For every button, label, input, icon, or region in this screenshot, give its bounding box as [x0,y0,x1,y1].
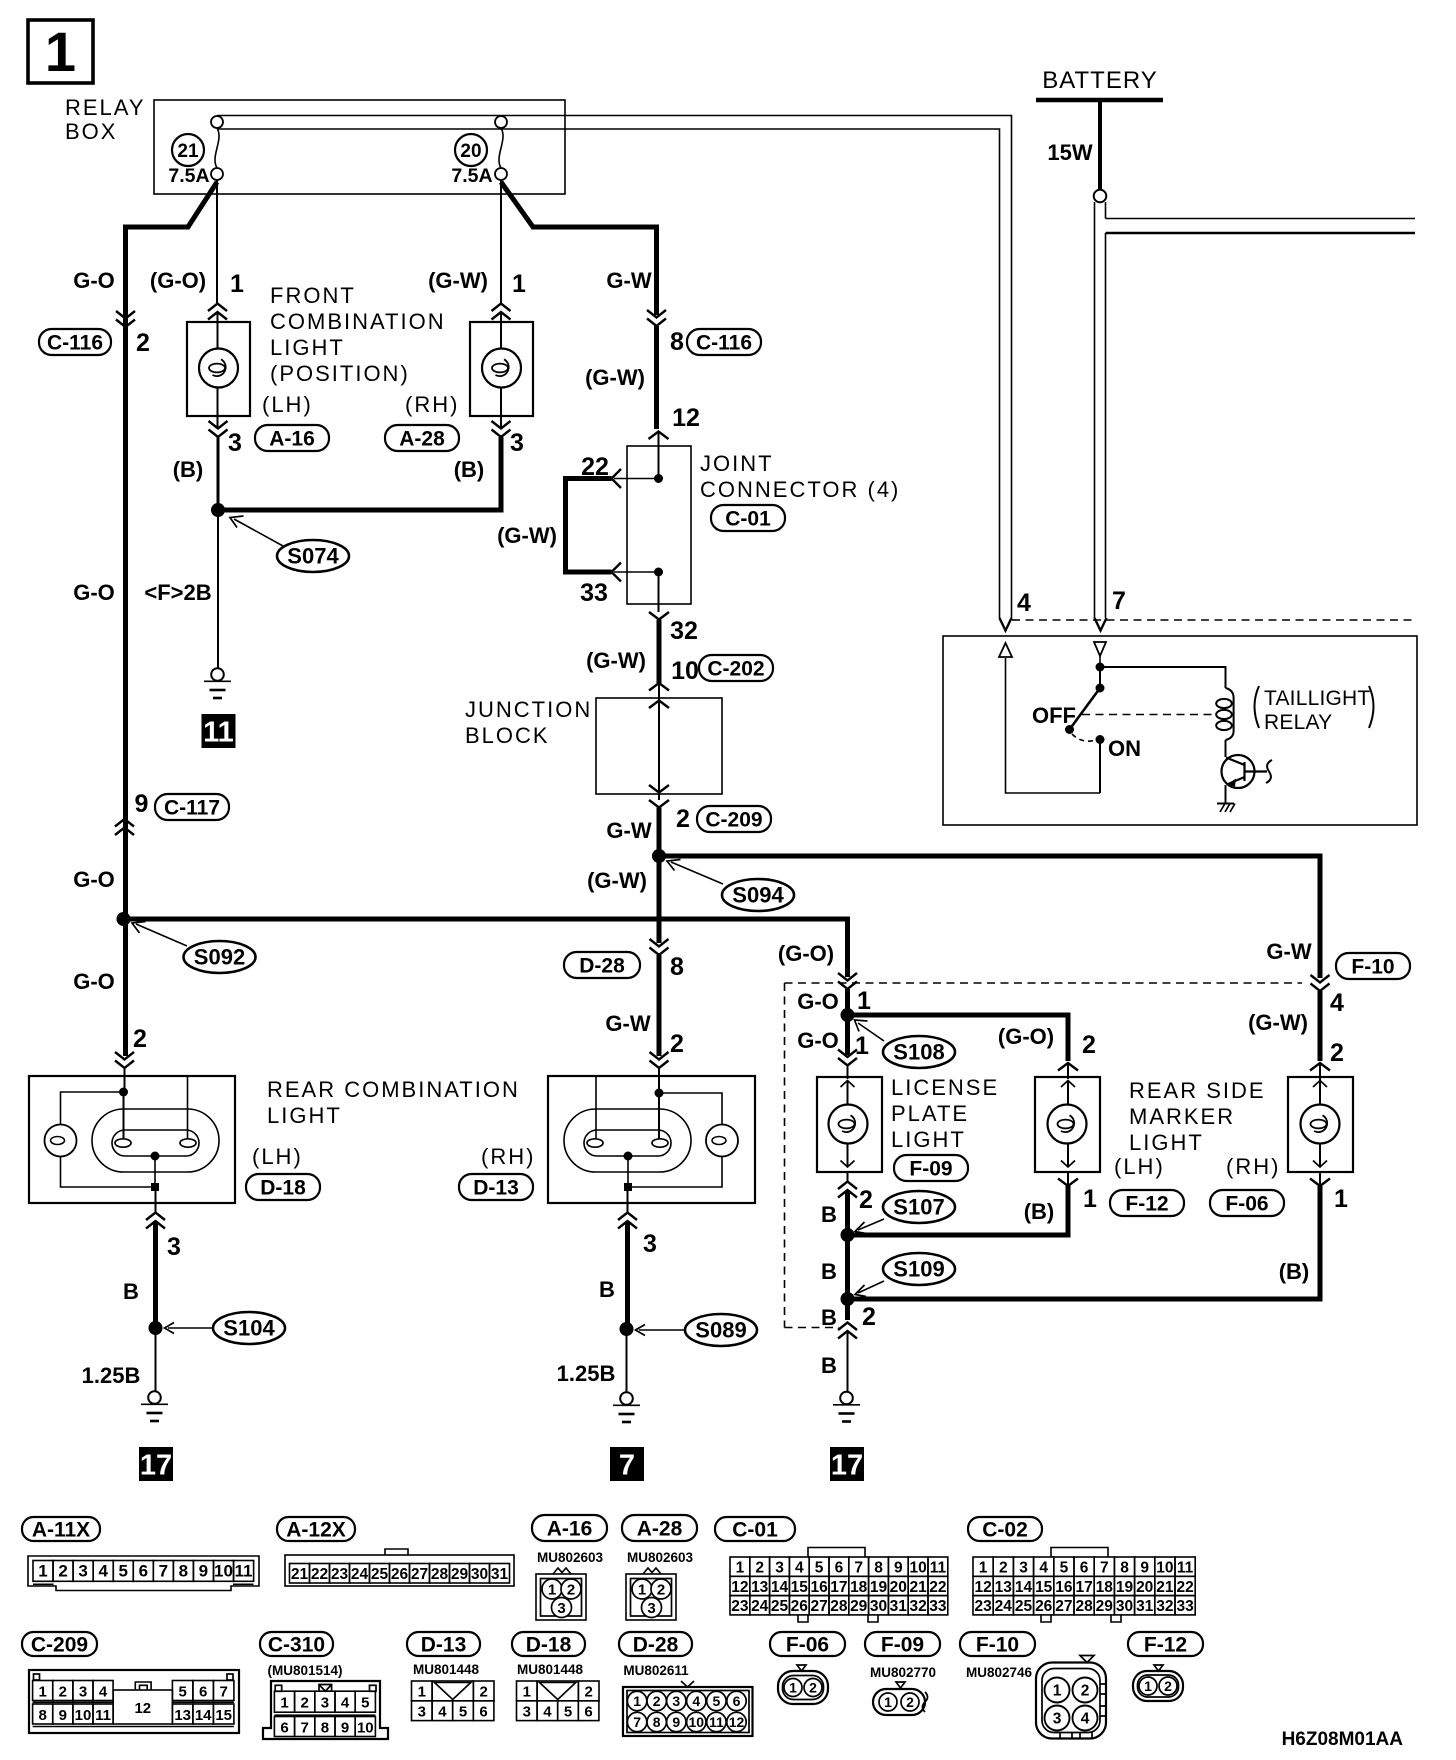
svg-text:30: 30 [870,1598,887,1615]
svg-text:24: 24 [995,1598,1013,1615]
svg-text:F-10: F-10 [976,1634,1019,1657]
wire: joint connector loop 22-33 (thick) [566,479,612,573]
svg-text:C-116: C-116 [47,332,103,355]
svg-text:25: 25 [1015,1598,1033,1615]
svg-text:7: 7 [220,1683,228,1700]
svg-text:2: 2 [999,1559,1008,1576]
fuse 20 [499,128,503,168]
svg-text:H6Z08M01AA: H6Z08M01AA [1282,1729,1404,1750]
ECU box [943,636,1417,825]
svg-text:20: 20 [890,1579,907,1596]
svg-text:32: 32 [1156,1598,1173,1615]
svg-text:B: B [821,1305,837,1330]
svg-text:30: 30 [1116,1598,1133,1615]
svg-text:7: 7 [1100,1559,1109,1576]
svg-text:2: 2 [862,1303,876,1331]
svg-text:LIGHT: LIGHT [1129,1130,1204,1155]
wire: S108 to rear side marker LH (thick) [848,1015,1069,1061]
marker LH exit [1067,1172,1069,1186]
svg-text:9: 9 [1140,1559,1149,1576]
svg-text:REAR SIDE: REAR SIDE [1129,1078,1266,1103]
svg-text:(G-O): (G-O) [998,1024,1054,1049]
svg-text:F-10: F-10 [1351,956,1394,979]
svg-text:17: 17 [831,1450,863,1482]
svg-text:3: 3 [1019,1559,1028,1576]
connector F-10 chevron [1311,975,1330,991]
svg-text:10: 10 [214,1562,233,1581]
taillight relay switch [1099,667,1101,688]
svg-text:29: 29 [1096,1598,1114,1615]
svg-text:C-202: C-202 [707,658,764,681]
svg-text:9: 9 [135,790,149,818]
svg-text:G-W: G-W [605,1011,650,1036]
bulb RH front [482,349,521,388]
svg-text:21: 21 [909,1579,927,1596]
svg-text:9: 9 [894,1559,903,1576]
svg-text:LIGHT: LIGHT [891,1127,966,1152]
svg-text:S107: S107 [893,1195,944,1220]
battery junction circle [1094,190,1107,203]
svg-text:30: 30 [471,1566,488,1583]
svg-text:4: 4 [98,1562,108,1581]
connector C-117 chevron [115,819,134,835]
svg-text:2: 2 [755,1559,764,1576]
svg-text:G-O: G-O [73,969,115,994]
node S092 [117,912,131,926]
svg-text:22: 22 [1176,1579,1193,1596]
svg-text:11: 11 [95,1707,111,1724]
svg-text:5: 5 [564,1704,572,1721]
continuation squiggle [1266,760,1272,783]
connector C-209 arrow below junction block [658,794,660,800]
ground (license/marker) [833,1392,860,1422]
svg-text:(RH): (RH) [1226,1154,1280,1179]
svg-text:(LH): (LH) [1114,1154,1165,1179]
svg-text:S104: S104 [223,1316,275,1341]
svg-text:13: 13 [751,1579,769,1596]
license exit chevron [847,1172,849,1182]
svg-text:2: 2 [133,1025,147,1053]
svg-text:20: 20 [460,141,481,162]
svg-text:F-09: F-09 [881,1634,924,1657]
rear marker RH entry arrow [1310,1063,1330,1071]
svg-text:5: 5 [118,1562,127,1581]
svg-text:G-W: G-W [606,268,651,293]
svg-text:10: 10 [909,1559,926,1576]
marker RH exit [1319,1172,1321,1186]
svg-text:22: 22 [311,1566,328,1583]
svg-text:3: 3 [418,1704,426,1721]
svg-text:1: 1 [979,1559,988,1576]
svg-text:3: 3 [523,1704,531,1721]
svg-text:15: 15 [215,1707,232,1724]
svg-text:16: 16 [1055,1579,1073,1596]
svg-text:4: 4 [1330,989,1344,1017]
(TAILLIGHT RELAY) label [1255,686,1260,728]
svg-text:2: 2 [1082,1031,1096,1059]
svg-text:2: 2 [136,329,150,357]
wire: fuse 21 to left G-O column (thick) [126,182,218,917]
svg-text:1: 1 [1053,1683,1062,1700]
svg-text:G-O: G-O [797,989,839,1014]
svg-text:MU802603: MU802603 [537,1550,604,1565]
svg-text:1: 1 [736,1559,745,1576]
connector A-16 (MU802603) [532,1515,607,1541]
svg-text:(G-W): (G-W) [1248,1010,1308,1035]
svg-text:14: 14 [1015,1579,1033,1596]
wire 4 arrow into relay ECU [1000,618,1012,631]
svg-text:MU802611: MU802611 [623,1663,689,1678]
connector D-13 (MU801448) [407,1632,480,1656]
svg-text:11: 11 [235,1562,253,1581]
svg-text:6: 6 [199,1683,207,1700]
svg-text:23: 23 [731,1598,749,1615]
svg-text:20: 20 [1136,1579,1153,1596]
svg-text:7: 7 [159,1562,168,1581]
pin 12 arrow into joint connector [649,432,669,440]
wire: bus from fuses to right corner (double line) [217,116,1012,619]
svg-text:2: 2 [1330,1039,1344,1067]
pin 3 chevron RH [492,421,511,437]
svg-text:32: 32 [909,1598,926,1615]
connector D-18 (MU801448) [512,1632,585,1656]
svg-text:2: 2 [859,1186,873,1214]
svg-text:4: 4 [692,1693,700,1709]
svg-text:7.5A: 7.5A [451,165,492,187]
ground (rear RH) [613,1392,640,1422]
svg-text:5: 5 [815,1559,824,1576]
svg-text:BATTERY: BATTERY [1042,67,1157,94]
svg-text:2: 2 [480,1684,488,1701]
svg-text:1: 1 [45,20,76,83]
svg-text:(G-W): (G-W) [428,268,488,293]
svg-text:B: B [821,1259,837,1284]
svg-text:27: 27 [810,1598,827,1615]
svg-text:1: 1 [512,270,526,298]
pin 3 chevron LH [209,421,228,437]
svg-text:(B): (B) [454,457,485,482]
svg-text:LIGHT: LIGHT [270,335,345,360]
svg-text:7.5A: 7.5A [168,165,209,187]
svg-text:8: 8 [179,1562,188,1581]
svg-text:29: 29 [451,1566,469,1583]
dashed enclosure [785,982,1303,984]
svg-text:33: 33 [929,1598,947,1615]
svg-text:15W: 15W [1047,140,1092,165]
svg-text:F-12: F-12 [1125,1193,1168,1216]
svg-text:23: 23 [974,1598,992,1615]
rear combination light LH box [29,1076,235,1203]
pin 22/33 arrows [612,469,622,488]
svg-text:7: 7 [1112,587,1126,615]
svg-text:33: 33 [580,579,608,607]
svg-text:9: 9 [341,1719,349,1736]
svg-text:1: 1 [789,1680,797,1696]
svg-text:6: 6 [280,1719,288,1736]
bulb LH front [199,349,238,388]
svg-text:1: 1 [638,1581,646,1598]
svg-text:2: 2 [59,1683,67,1700]
svg-text:7: 7 [854,1559,863,1576]
svg-text:13: 13 [174,1707,191,1724]
svg-text:9: 9 [672,1714,680,1730]
connector A-16 pill [255,425,329,451]
connector A-11X [22,1517,100,1541]
svg-text:G-W: G-W [1266,939,1311,964]
svg-text:3: 3 [775,1559,784,1576]
svg-text:6: 6 [584,1704,592,1721]
svg-text:JUNCTION: JUNCTION [465,697,592,722]
svg-text:4: 4 [438,1704,447,1721]
svg-text:33: 33 [1176,1598,1194,1615]
svg-text:D-13: D-13 [421,1634,467,1657]
junction block box [596,698,722,794]
connector C-310 [260,1632,333,1656]
svg-text:(B): (B) [173,457,204,482]
svg-text:(G-O): (G-O) [150,268,206,293]
svg-text:2: 2 [653,1693,661,1709]
svg-text:S092: S092 [194,945,245,970]
svg-text:19: 19 [870,1579,888,1596]
svg-text:24: 24 [351,1566,369,1583]
wire: S074 to ground [217,510,219,668]
wire: pin 32 out of joint connector [658,572,660,612]
connector A-12X [277,1517,355,1541]
svg-text:D-28: D-28 [633,1634,679,1657]
svg-text:2: 2 [585,1684,593,1701]
svg-text:4: 4 [1081,1711,1090,1728]
svg-text:5: 5 [713,1693,721,1709]
svg-text:5: 5 [1060,1559,1069,1576]
svg-text:6: 6 [479,1704,487,1721]
svg-text:3: 3 [647,1600,655,1617]
svg-text:A-16: A-16 [269,428,315,451]
connector A-28 (MU802603) [622,1515,697,1541]
license plate light box [817,1077,882,1172]
svg-text:3: 3 [321,1695,329,1712]
svg-text:29: 29 [850,1598,868,1615]
svg-text:26: 26 [1035,1598,1053,1615]
svg-text:S094: S094 [732,883,784,908]
wire: battery branch to right (double line) [1106,218,1416,220]
svg-text:MARKER: MARKER [1129,1104,1235,1129]
rear combination light RH box [548,1076,755,1203]
svg-text:10: 10 [75,1707,92,1724]
svg-text:2: 2 [657,1581,665,1598]
svg-text:26: 26 [791,1598,809,1615]
svg-text:32: 32 [670,617,698,645]
svg-text:2: 2 [809,1680,817,1696]
svg-text:PLATE: PLATE [891,1101,969,1126]
svg-text:B: B [821,1202,837,1227]
svg-text:B: B [123,1279,139,1304]
svg-text:31: 31 [491,1566,509,1583]
svg-text:11: 11 [1177,1559,1194,1576]
svg-text:10: 10 [671,657,699,685]
svg-text:4: 4 [1017,589,1031,617]
connector C-209 [22,1632,97,1656]
svg-text:3: 3 [1053,1711,1062,1728]
svg-text:25: 25 [771,1598,789,1615]
svg-text:(MU801514): (MU801514) [267,1663,342,1678]
svg-text:19: 19 [1116,1579,1134,1596]
svg-text:G-O: G-O [73,580,115,605]
svg-text:(RH): (RH) [481,1144,535,1169]
svg-text:1: 1 [39,1683,47,1700]
svg-text:6: 6 [835,1559,844,1576]
svg-text:C-02: C-02 [982,1519,1028,1542]
svg-text:21: 21 [291,1566,309,1583]
svg-text:(B): (B) [1279,1259,1310,1284]
connector C-116 chevron (right) [647,310,666,326]
svg-text:C-01: C-01 [732,1519,778,1542]
dashed link switch to coil [1082,714,1214,716]
svg-text:1.25B: 1.25B [82,1363,141,1388]
svg-text:12: 12 [134,1700,151,1717]
svg-text:1: 1 [418,1684,426,1701]
svg-text:RELAY: RELAY [65,95,146,120]
svg-text:2: 2 [58,1562,67,1581]
svg-text:A-12X: A-12X [286,1519,346,1542]
svg-text:5: 5 [361,1695,369,1712]
svg-text:3: 3 [78,1562,87,1581]
svg-text:31: 31 [1136,1598,1154,1615]
svg-text:MU801448: MU801448 [413,1662,480,1677]
svg-text:2: 2 [906,1694,914,1710]
svg-text:MU802603: MU802603 [627,1550,694,1565]
svg-text:(LH): (LH) [262,392,313,417]
svg-text:1: 1 [855,1032,869,1060]
svg-text:(G-W): (G-W) [587,868,647,893]
svg-text:23: 23 [331,1566,349,1583]
svg-text:10: 10 [689,1714,705,1730]
rear LH light entry chevron [115,1052,134,1068]
bulb marker RH [1301,1105,1340,1144]
svg-text:6: 6 [1080,1559,1089,1576]
front combination light LH box [187,322,250,416]
connector C-116 chevron (left) [116,311,135,327]
svg-text:REAR COMBINATION: REAR COMBINATION [267,1077,520,1102]
svg-text:A-11X: A-11X [32,1519,90,1542]
svg-text:11: 11 [203,717,234,749]
svg-text:8: 8 [670,328,684,356]
svg-text:9: 9 [199,1562,208,1581]
svg-text:BLOCK: BLOCK [465,723,550,748]
svg-text:12: 12 [731,1579,748,1596]
svg-text:17: 17 [830,1579,847,1596]
svg-text:<F>2B: <F>2B [144,580,211,605]
svg-text:26: 26 [391,1566,409,1583]
svg-text:D-18: D-18 [526,1634,572,1657]
svg-text:3: 3 [228,429,242,457]
license plate light entry chevron [845,1015,850,1055]
svg-text:G-O: G-O [73,867,115,892]
input arrow (pin 7) [1099,656,1101,667]
connector F-12 [1128,1632,1203,1656]
svg-text:C-310: C-310 [268,1634,325,1657]
bulb marker LH [1048,1105,1087,1144]
svg-text:1: 1 [230,270,244,298]
svg-text:2: 2 [1081,1683,1090,1700]
svg-text:G-O: G-O [797,1028,839,1053]
svg-text:8: 8 [670,953,684,981]
svg-text:A-28: A-28 [637,1518,683,1541]
svg-text:S109: S109 [893,1257,944,1282]
svg-text:8: 8 [874,1559,883,1576]
svg-text:8: 8 [39,1707,47,1724]
svg-text:COMBINATION: COMBINATION [270,309,446,334]
svg-text:3: 3 [557,1600,565,1617]
svg-text:F-06: F-06 [1225,1193,1268,1216]
svg-text:16: 16 [810,1579,828,1596]
node S109 [841,1292,855,1306]
node S089 [620,1322,634,1336]
svg-text:1: 1 [1144,1678,1152,1694]
svg-text:13: 13 [995,1579,1013,1596]
connector F-09 (MU802770) [865,1632,940,1656]
svg-text:G-O: G-O [73,268,115,293]
svg-text:2: 2 [301,1695,309,1712]
node S104 [149,1321,163,1335]
svg-text:8: 8 [653,1714,661,1730]
svg-text:6: 6 [139,1562,148,1581]
svg-text:4: 4 [543,1704,552,1721]
svg-text:F-09: F-09 [909,1158,952,1181]
svg-text:18: 18 [850,1579,868,1596]
svg-text:1: 1 [857,987,871,1015]
svg-text:B: B [599,1277,615,1302]
svg-text:B: B [821,1353,837,1378]
svg-text:22: 22 [929,1579,946,1596]
svg-text:(LH): (LH) [252,1144,303,1169]
svg-text:TAILLIGHT: TAILLIGHT [1264,687,1370,710]
svg-text:12: 12 [672,404,700,432]
svg-text:1: 1 [38,1562,47,1581]
svg-text:21: 21 [1156,1579,1174,1596]
ground ref box 11 [202,714,236,748]
pin 3 exit LH rear [155,1191,157,1213]
transistor emitter to chassis ground [1225,785,1227,804]
svg-text:3: 3 [672,1693,680,1709]
connector D-28 (MU802611) [619,1632,692,1656]
wire: S094 down through D-28 to rear RH light [657,856,662,943]
svg-text:(G-W): (G-W) [497,523,557,548]
svg-text:OFF: OFF [1032,703,1076,728]
svg-text:D-28: D-28 [579,955,625,978]
svg-text:28: 28 [830,1598,848,1615]
relay box [154,100,565,194]
svg-text:14: 14 [771,1579,789,1596]
svg-text:3: 3 [167,1233,181,1261]
ground (rear LH) [141,1391,168,1421]
svg-text:1: 1 [523,1684,531,1701]
svg-text:7: 7 [633,1714,641,1730]
svg-text:D-18: D-18 [260,1177,306,1200]
svg-text:S108: S108 [893,1040,944,1065]
ground (front lights) [204,668,231,698]
node S108 [841,1008,855,1022]
svg-text:3: 3 [510,429,524,457]
svg-text:2: 2 [1164,1678,1172,1694]
wire: S094 to rear side marker RH (thick, via F-10) [659,856,1320,978]
connector C-202 arrow [649,683,669,691]
node S074 [218,437,501,510]
connector C-01 grid [715,1517,795,1541]
connector A-28 pill [385,425,459,451]
svg-text:1: 1 [884,1694,892,1710]
rear side marker light RH box [1288,1077,1353,1172]
svg-text:28: 28 [1075,1598,1093,1615]
